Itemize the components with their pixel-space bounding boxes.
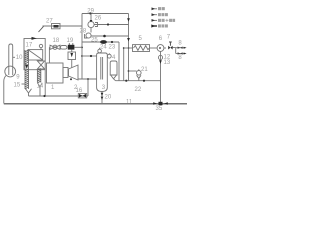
svg-text:15: 15	[14, 82, 21, 88]
node (144,80.7)	[143, 80, 145, 82]
butterfly valve 18	[50, 45, 60, 49]
wire line y36	[91, 35, 128, 37]
water tube 10	[9, 44, 13, 75]
wire vertical x123.7	[123, 48, 125, 81]
wire suction line y26	[43, 25, 83, 27]
wire 7 to split	[173, 48, 176, 54]
separator capsule	[110, 61, 117, 81]
wire 19 to x82	[74, 46, 82, 48]
node (88,79)	[87, 78, 89, 80]
node (104.5,36)	[103, 35, 106, 38]
node (71,79.5)	[70, 78, 72, 80]
wire oil line y80.7	[116, 80, 161, 82]
wire oil return line y96	[29, 95, 89, 97]
check valve 8 bottom	[176, 52, 187, 54]
svg-text:27: 27	[46, 19, 53, 25]
solenoid valve 19	[68, 43, 75, 49]
trap 12	[158, 55, 162, 59]
svg-text:1: 1	[51, 85, 55, 91]
regulator valve 28 upper circle	[88, 20, 98, 28]
port circle 4	[107, 53, 111, 58]
svg-text:8: 8	[178, 41, 182, 47]
svg-text:13: 13	[164, 60, 171, 66]
wire bottom water line	[4, 103, 187, 105]
wire right vertical x128.5	[128, 14, 130, 81]
regulator valve 28 lower circle	[85, 33, 92, 38]
svg-text:6: 6	[159, 36, 163, 42]
filter 27	[52, 24, 61, 29]
svg-text:22: 22	[135, 87, 142, 93]
wire cooler inlet y48	[124, 47, 133, 49]
wire suction box to compressor	[71, 60, 73, 68]
arrow down in column 15	[25, 65, 28, 70]
legend arrow oil	[152, 13, 158, 16]
svg-text:35: 35	[156, 106, 163, 112]
wire drain leg x160.5	[160, 51, 162, 103]
wire line y24.5	[94, 24, 128, 26]
loop seal 9	[5, 66, 16, 77]
legend text air	[158, 7, 165, 10]
valve 16	[78, 94, 86, 98]
motor 1	[47, 63, 69, 83]
node (90.5,13.5)	[89, 12, 91, 14]
arrow right on box top	[32, 37, 37, 40]
hourglass valve under heat exchanger	[37, 61, 44, 69]
wire box17 drain x45.2	[44, 70, 46, 96]
vessel 3 receiver tank	[97, 53, 108, 92]
legend arrow air	[152, 7, 158, 10]
heat exchanger square with diagonal	[28, 50, 43, 60]
wire 6 to 7	[164, 47, 166, 49]
capsule between 18 and 19	[60, 46, 67, 50]
node (82,47.4)	[81, 47, 83, 49]
wire line y42	[82, 41, 119, 43]
column 15 hatch	[25, 50, 29, 89]
legend text air+oil	[158, 19, 175, 22]
cooler 5	[133, 45, 150, 52]
svg-text:4: 4	[112, 55, 116, 61]
drain valve 21	[129, 69, 142, 80]
wire cooler outlet	[150, 47, 158, 49]
arrow down on x128.5 at y39.5	[127, 38, 130, 41]
label 15	[14, 82, 26, 88]
node (128.5,48)	[128, 47, 130, 49]
node (91,56)	[90, 55, 92, 57]
arrow down on x128.5 at y19.5	[127, 18, 130, 21]
check valve 8 top	[176, 47, 187, 49]
node (126.3,80.7)	[125, 80, 127, 82]
filter 6	[157, 45, 164, 52]
junction 35 arrows	[153, 102, 168, 105]
svg-text:26: 26	[95, 16, 102, 22]
wire valve train corner down to motor	[48, 47, 51, 63]
vessel drain arrows 20	[101, 92, 104, 104]
wire main vertical pipe x82	[81, 14, 83, 80]
solenoid valve 25	[100, 40, 107, 44]
svg-text:23: 23	[109, 45, 116, 51]
relief valve 24 on vessel top	[98, 48, 102, 53]
wire line y56	[82, 55, 97, 57]
svg-text:3: 3	[102, 85, 106, 91]
svg-text:19: 19	[67, 38, 74, 44]
vessel 3 inner tube	[101, 57, 103, 80]
node (112,42)	[111, 41, 113, 43]
wire top line y13.5	[82, 13, 129, 15]
arrow down 13	[159, 60, 162, 64]
funnel under column 15	[26, 89, 32, 96]
node (123.7,48)	[123, 47, 125, 49]
svg-text:20: 20	[105, 95, 112, 101]
node (82,56)	[81, 55, 83, 57]
svg-text:17: 17	[26, 43, 33, 49]
svg-text:5: 5	[139, 36, 143, 42]
box 17 (oil recovery box)	[24, 39, 45, 70]
svg-text:28: 28	[80, 28, 87, 34]
funnel under column 14	[38, 83, 43, 96]
air inlet slash	[39, 26, 45, 32]
thermostatic valve 7	[168, 42, 172, 50]
svg-text:18: 18	[53, 38, 60, 44]
wire riser x88	[87, 79, 89, 96]
node (44.5,96)	[43, 95, 45, 97]
suction controller box	[68, 50, 76, 60]
svg-text:21: 21	[141, 67, 148, 73]
wire discharge y79	[78, 78, 97, 80]
wire left frame	[4, 76, 6, 104]
svg-text:9: 9	[16, 74, 20, 80]
wire stem x91	[90, 14, 92, 33]
wire vertical x119	[118, 42, 120, 81]
svg-text:8: 8	[178, 55, 182, 61]
column 14 hatch	[37, 69, 40, 83]
svg-text:14: 14	[37, 83, 44, 89]
legend text water	[158, 24, 168, 27]
legend text oil	[158, 13, 168, 16]
label 10	[13, 55, 23, 61]
node (108,24.5)	[107, 23, 109, 25]
svg-text:25: 25	[91, 38, 98, 44]
legend arrow air+oil	[152, 19, 158, 22]
sight glass circle in box 17	[39, 44, 42, 49]
legend arrow water	[151, 24, 157, 27]
node (128.5,71)	[128, 70, 130, 72]
compressor 2	[69, 65, 79, 80]
svg-text:7: 7	[167, 34, 171, 40]
svg-text:10: 10	[16, 55, 23, 61]
